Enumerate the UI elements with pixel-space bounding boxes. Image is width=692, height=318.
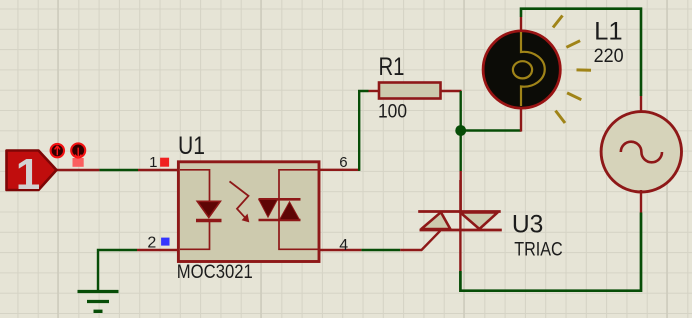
label U3 [512,211,544,239]
node junction dot [455,125,466,136]
pin 2 state square (blue) [161,238,169,246]
wire triac gate pin (dark red) [400,231,440,250]
value MOC3021 [177,262,253,283]
optocoupler U1 body [178,162,319,262]
wire pin2 green segment to ground [98,250,137,291]
wire pin1 terminal stub (dark red) [56,169,99,171]
wire U1 pin1 stub (dark red) [138,169,178,171]
U1 internal triac [259,170,319,250]
resistor R1 body [379,83,441,99]
wire R1 down to node (green) [460,91,462,171]
probe indicator down-arrow [71,143,85,166]
pin 1 state square (red) [160,158,169,167]
wire triac bottom pin (dark red) [459,231,461,271]
AC source V1 body [601,112,681,192]
svg-text:1: 1 [149,154,157,171]
U1 internal LED branch [180,170,222,250]
wire lamp top to right rail (green) [521,9,641,96]
lamp L1 body [483,31,560,108]
wire AC top pin (dark red) [640,96,642,114]
svg-text:6: 6 [339,154,347,171]
svg-text:4: 4 [339,237,348,254]
label U1 [178,132,205,160]
wire node to lamp (green) [461,129,521,131]
terminal 1 [7,150,57,199]
lamp rays [553,16,591,124]
wire R1 left pin (dark red) [369,90,379,92]
ground [78,292,119,312]
label L1 [594,18,623,46]
pin number 4 [339,237,348,254]
svg-text:1: 1 [16,150,40,199]
svg-text:U1: U1 [178,132,205,160]
svg-text:U3: U3 [512,211,544,239]
wire pin6 to R1 (green) [359,91,368,171]
label R1 [379,53,405,81]
wire triac top pin (dark red) [460,171,462,212]
svg-text:R1: R1 [379,53,405,81]
probe indicator up-arrow [51,144,64,157]
wire pin4 green segment [361,249,400,251]
wire AC bottom pin (dark red) [640,190,642,213]
svg-text:TRIAC: TRIAC [514,240,563,261]
value 220 [594,46,624,67]
pin number 1 [149,154,157,171]
wire R1 right pin (dark red) [441,90,462,92]
pin number 6 [339,154,347,171]
triac U3 [418,180,502,231]
wire lamp bottom lead (dark red) [520,106,522,132]
U1 light arrow [230,181,250,222]
svg-text:220: 220 [594,46,624,67]
svg-text:2: 2 [147,234,156,251]
wire U1 pin4 stub (dark red) [320,249,361,251]
wire pin1 green segment [99,169,138,171]
wire lamp top lead (dark red) [520,17,522,33]
svg-text:100: 100 [378,101,407,122]
svg-text:MOC3021: MOC3021 [177,262,253,283]
value TRIAC [514,240,563,261]
pin number 2 [147,234,156,251]
wire AC bottom to triac (green) [460,213,641,291]
value 100 [378,101,407,122]
svg-text:L1: L1 [594,18,623,46]
wire U1 pin2 stub (dark red) [137,249,178,251]
wire U1 pin6 stub (dark red) [320,169,360,171]
